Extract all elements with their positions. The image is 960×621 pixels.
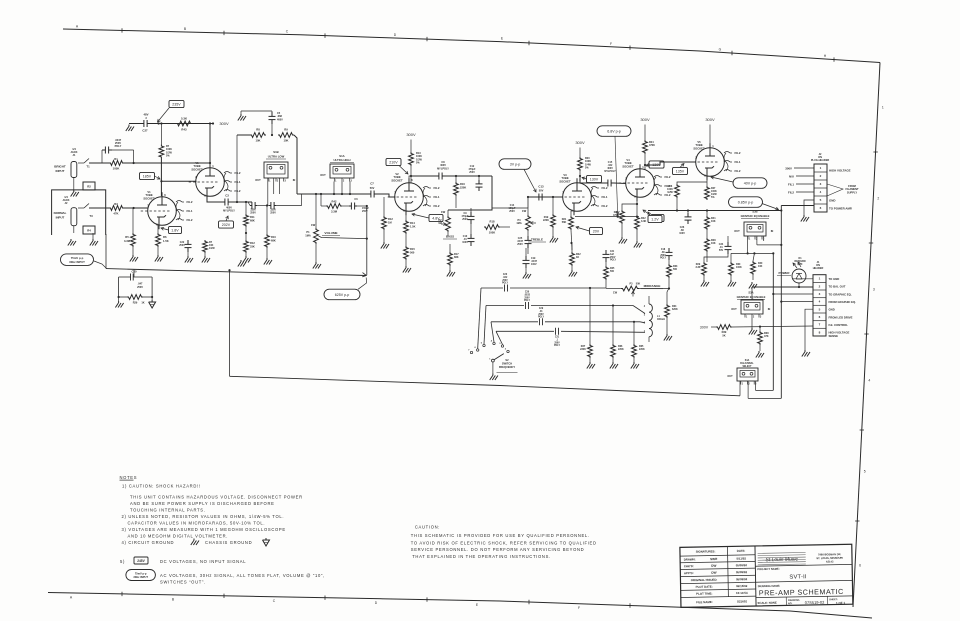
- capacitor C8 coupling: [436, 161, 449, 180]
- capacitor C5: [241, 111, 283, 136]
- ground on loop A 1: [0, 0, 1, 1]
- wire S4A mid pin to vertical B: [748, 397, 781, 399]
- svg-text:10K: 10K: [284, 139, 289, 143]
- resistor R29b: [695, 262, 706, 276]
- svg-text:THIS UNIT CONTAINS HAZARDOUS V: THIS UNIT CONTAINS HAZARDOUS VOLTAGE. DI…: [130, 495, 303, 500]
- svg-text:THAT EXPLAINED IN THE OPERATIN: THAT EXPLAINED IN THE OPERATING INSTRUCT…: [412, 554, 551, 559]
- svg-text:SOCKET: SOCKET: [391, 178, 403, 182]
- svg-text:SOCKET: SOCKET: [191, 167, 203, 171]
- ground R36: [610, 358, 618, 369]
- resistor R17 68K: [448, 244, 460, 266]
- svg-text:1K: 1K: [141, 302, 144, 305]
- svg-text:FIL1: FIL1: [434, 195, 440, 199]
- svg-text:250V: 250V: [538, 314, 544, 316]
- net labels J2 left: [785, 167, 794, 195]
- svg-text:1/2W: 1/2W: [667, 191, 673, 194]
- svg-text:4: 4: [820, 190, 822, 194]
- svg-text:48V: 48V: [144, 113, 149, 117]
- svg-text:MYLPOLY: MYLPOLY: [604, 170, 616, 173]
- svg-text:250V: 250V: [250, 212, 256, 215]
- capacitor C4 row: [248, 202, 257, 215]
- op-amp V3 triode: [556, 173, 592, 215]
- svg-text:470K: 470K: [649, 144, 655, 147]
- svg-text:MYLPOLY: MYLPOLY: [437, 167, 449, 170]
- svg-text:LED: LED: [798, 263, 803, 266]
- svg-text:30Hz INPUT: 30Hz INPUT: [69, 260, 85, 264]
- wire S1B pins down: [268, 178, 280, 206]
- svg-text:100V: 100V: [531, 263, 537, 266]
- svg-text:HEADER: HEADER: [813, 267, 824, 270]
- svg-text:250V: 250V: [469, 171, 475, 174]
- svg-text:300V: 300V: [640, 117, 650, 122]
- svg-text:3: 3: [873, 288, 875, 292]
- svg-text:TOUCHING INTERNAL PARTS.: TOUCHING INTERNAL PARTS.: [130, 508, 206, 513]
- capacitor C14 labels: [509, 204, 516, 213]
- svg-text:OUT: OUT: [734, 229, 740, 233]
- svg-text:INPUT: INPUT: [56, 215, 65, 219]
- voltage label 135V: [673, 164, 688, 175]
- svg-text:DATE:: DATE:: [737, 549, 746, 553]
- capacitor C7 series: [368, 182, 377, 198]
- wire loop vertical drop: [228, 269, 230, 376]
- svg-text:3: 3: [819, 292, 821, 296]
- svg-text:FIL2: FIL2: [434, 204, 440, 208]
- voltage node 300V above V3: [575, 140, 585, 157]
- wire eq bus line 2: [484, 306, 645, 345]
- oval 3V p-p: [499, 159, 536, 192]
- svg-text:St.Louis Music: St.Louis Music: [765, 557, 798, 564]
- svg-text:.1: .1: [556, 339, 559, 341]
- resistor R20 plate V3: [578, 157, 592, 171]
- svg-text:A: A: [70, 595, 73, 599]
- ground R19: [550, 228, 558, 243]
- wire 235V supply rail: [129, 122, 213, 124]
- svg-text:R10: R10: [271, 235, 276, 239]
- svg-text:300V: 300V: [406, 132, 416, 137]
- wire V5 cathode down: [706, 176, 708, 186]
- svg-text:B: B: [172, 597, 175, 601]
- svg-text:300V: 300V: [219, 121, 229, 126]
- svg-text:1.5K: 1.5K: [410, 224, 416, 228]
- svg-text:D: D: [394, 33, 397, 37]
- ground S3A: [749, 318, 757, 335]
- svg-text:1: 1: [742, 382, 744, 385]
- svg-text:S3B: S3B: [752, 210, 757, 214]
- svg-text:135V: 135V: [676, 169, 685, 173]
- svg-text:CW: CW: [522, 209, 527, 213]
- heater pins V3: [591, 186, 608, 208]
- voltage label 1.8V: [161, 226, 182, 233]
- svg-text:1: 1: [749, 237, 751, 240]
- svg-text:6: 6: [474, 347, 476, 349]
- svg-text:ST. LOUIS, MISSOURI: ST. LOUIS, MISSOURI: [816, 556, 843, 560]
- wire V1A plate to rail: [209, 122, 211, 164]
- svg-text:INPUT: INPUT: [56, 169, 65, 173]
- ground R6: [155, 247, 163, 262]
- svg-text:1: 1: [882, 106, 884, 110]
- svg-text:POLY: POLY: [610, 260, 617, 262]
- svg-text:1: 1: [642, 165, 644, 169]
- svg-text:TO POWER AMP.: TO POWER AMP.: [829, 207, 852, 211]
- voltage label 4.8V: [412, 213, 443, 221]
- wire into V3 grid: [527, 196, 563, 208]
- svg-text:5: 5: [820, 198, 822, 202]
- svg-text:56K: 56K: [562, 221, 567, 224]
- svg-text:FIL2: FIL2: [235, 171, 241, 175]
- svg-text:400mH: 400mH: [657, 318, 665, 321]
- svg-text:68K: 68K: [271, 238, 276, 242]
- svg-text:250V: 250V: [660, 255, 666, 257]
- resistor R27: [705, 186, 718, 200]
- svg-text:R42: R42: [332, 200, 337, 204]
- wire drop to R37: [589, 287, 591, 344]
- svg-text:PROJECT NAME:: PROJECT NAME:: [757, 567, 779, 571]
- notes text block: [120, 475, 303, 545]
- svg-text:R18: R18: [490, 220, 495, 224]
- resistor R23 470K: [613, 210, 624, 224]
- svg-text:220K: 220K: [460, 185, 466, 189]
- op-amp V5 triode: [689, 140, 725, 180]
- svg-text:R43: R43: [181, 128, 187, 132]
- resistor R39 5K: [716, 325, 732, 338]
- svg-text:.01: .01: [539, 311, 543, 313]
- svg-text:GRAPHIC EQ ENABLE: GRAPHIC EQ ENABLE: [741, 214, 770, 218]
- wire R9 down to bus: [294, 135, 305, 194]
- svg-text:FIL2: FIL2: [788, 191, 794, 195]
- svg-text:R12: R12: [250, 241, 255, 245]
- wire output bus: [648, 209, 782, 211]
- ground R17: [447, 266, 455, 277]
- svg-text:FIL2: FIL2: [187, 200, 193, 204]
- svg-text:202V: 202V: [222, 223, 231, 227]
- svg-text:OUT: OUT: [731, 307, 737, 311]
- svg-text:1: 1: [819, 277, 821, 281]
- svg-text:S21602: S21602: [737, 599, 747, 603]
- svg-text:1M: 1M: [438, 222, 441, 225]
- svg-text:R11: R11: [250, 215, 255, 219]
- resistor R10: [265, 206, 277, 249]
- title block: [680, 544, 853, 608]
- svg-text:05/09/92: 05/09/92: [736, 577, 748, 581]
- svg-text:1: 1: [820, 166, 822, 170]
- wire R16 down: [455, 196, 457, 208]
- svg-text:OUT: OUT: [255, 178, 261, 182]
- wire cathode bus V3 V4: [575, 216, 639, 218]
- ground P1: [313, 244, 321, 269]
- svg-text:THIS SCHEMATIC IS PROVIDED FOR: THIS SCHEMATIC IS PROVIDED FOR USE BY QU…: [411, 533, 590, 538]
- svg-text:GND: GND: [829, 199, 835, 203]
- ground R29b: [701, 276, 709, 287]
- wire R13 to V2 plate: [409, 166, 412, 184]
- svg-text:15:10:54: 15:10:54: [736, 591, 748, 595]
- svg-text:47K: 47K: [113, 212, 118, 216]
- connector J1: [813, 261, 826, 336]
- svg-text:R8: R8: [256, 128, 260, 132]
- svg-text:620K: 620K: [672, 308, 678, 311]
- rotary switch S2 contacts: [468, 339, 509, 362]
- switch S3A graphic eq enable: [731, 291, 770, 319]
- svg-text:FIL2: FIL2: [602, 186, 608, 190]
- resistor R6 1.5K: [156, 225, 169, 247]
- inductor L1 400mH: [644, 296, 665, 342]
- resistor R11 divider top: [244, 202, 256, 227]
- ground upper right of C5: [238, 111, 246, 121]
- ground below bright jack: [71, 178, 79, 197]
- svg-text:T3: T3: [89, 214, 93, 218]
- resistor R3 47K: [109, 202, 124, 216]
- wire S3B to R30: [730, 253, 732, 262]
- svg-text:SIGNATURES:: SIGNATURES:: [696, 549, 716, 553]
- svg-text:250V: 250V: [517, 243, 523, 246]
- resistor R40: [751, 261, 763, 275]
- svg-text:250V: 250V: [270, 212, 276, 215]
- svg-text:OUT: OUT: [320, 173, 326, 177]
- caution text block: [411, 525, 597, 560]
- svg-text:07S519-02: 07S519-02: [805, 600, 825, 605]
- wire J1 pin4: [780, 301, 813, 303]
- resistor R37 220K: [580, 344, 592, 358]
- svg-text:C29: C29: [539, 308, 544, 310]
- capacitor C9 slope: [462, 208, 475, 224]
- wire up to R8 row: [237, 135, 250, 202]
- wire R26 bottom: [676, 198, 678, 211]
- oval 0.85V p-p: [729, 197, 779, 210]
- wire R39 to J1: [732, 326, 813, 327]
- svg-text:185V: 185V: [143, 174, 152, 178]
- resistor R4 box: [83, 226, 95, 234]
- svg-text:1: 1: [269, 179, 271, 182]
- resistor R42 3.3M: [321, 194, 349, 214]
- wire treble top to signal: [492, 208, 528, 227]
- svg-text:D: D: [375, 601, 378, 605]
- wire C3 to divider: [231, 201, 252, 203]
- svg-text:P3: P3: [630, 283, 634, 286]
- capacitor C20 block: [119, 269, 153, 297]
- capacitor C31 series: [554, 328, 561, 347]
- wire main bus: [305, 193, 368, 195]
- svg-text:235V: 235V: [172, 102, 181, 106]
- svg-text:FREQUENCY: FREQUENCY: [499, 365, 516, 369]
- svg-text:1: 1: [746, 315, 748, 318]
- resistor R18 100K: [471, 220, 500, 235]
- svg-text:C27: C27: [142, 129, 148, 133]
- capacitor C1 bypass loop: [102, 138, 134, 163]
- resistor R33 560: [667, 260, 678, 288]
- svg-text:250V: 250V: [610, 257, 616, 259]
- resistor R24 470K: [643, 140, 656, 154]
- svg-text:C21: C21: [610, 251, 615, 253]
- svg-text:10K: 10K: [711, 242, 716, 245]
- svg-text:S3A: S3A: [748, 291, 753, 295]
- svg-text:S2: S2: [505, 358, 509, 362]
- svg-text:CHASSIS GROUND: CHASSIS GROUND: [205, 540, 252, 545]
- svg-text:245V: 245V: [137, 559, 145, 563]
- capacitor C18: [660, 248, 673, 260]
- svg-text:POLY: POLY: [554, 345, 561, 347]
- svg-text:VOLUME: VOLUME: [324, 231, 337, 235]
- svg-text:N/U: N/U: [789, 175, 794, 179]
- svg-text:POLY: POLY: [538, 317, 545, 319]
- voltage label 185V: [140, 172, 161, 179]
- top border zone ticks and letters: [76, 24, 834, 62]
- capacitor C12: [469, 165, 483, 191]
- svg-text:5%: 5%: [711, 196, 715, 199]
- svg-text:SOCKET: SOCKET: [559, 179, 571, 183]
- svg-text:GND: GND: [829, 308, 835, 312]
- heater pins V4: [654, 175, 671, 197]
- svg-text:R9: R9: [284, 128, 288, 132]
- svg-text:50V: 50V: [370, 186, 375, 190]
- wire J1 pin2 bus: [752, 286, 813, 300]
- heater pins V1A: [224, 171, 241, 193]
- svg-text:.0033: .0033: [524, 294, 530, 296]
- bottom border zone ticks and letters: [70, 592, 630, 611]
- jack J1 bright input: [54, 147, 77, 178]
- note 5 ac voltages oval: [126, 570, 325, 585]
- wire loop A left vertical: [105, 234, 107, 269]
- wire eq bus line 3: [491, 322, 645, 342]
- resistor R43 5.6K: [176, 117, 192, 132]
- svg-text:DW: DW: [711, 571, 716, 575]
- voltage label 12V: [643, 210, 664, 222]
- wire drop to R35: [633, 321, 635, 344]
- potentiometer P1 volume: [305, 193, 368, 244]
- svg-text:IN: IN: [293, 178, 296, 182]
- svg-text:PLOT TIME:: PLOT TIME:: [696, 591, 712, 595]
- svg-text:FIL2: FIL2: [735, 169, 741, 173]
- ground J1 pin5: [802, 309, 813, 356]
- ground S2: [490, 362, 498, 380]
- op-amp V2 triode: [388, 172, 424, 215]
- svg-text:1uF: 1uF: [610, 254, 615, 256]
- connector J2: [811, 153, 830, 212]
- svg-text:POLY: POLY: [115, 144, 122, 148]
- wire C7 to V2 grid: [377, 194, 396, 197]
- ground divider: [243, 253, 251, 263]
- svg-text:10K: 10K: [711, 220, 716, 223]
- wire V1B plate to V1A grid: [160, 159, 196, 197]
- svg-text:4) CIRCUIT GROUND: 4) CIRCUIT GROUND: [122, 540, 175, 545]
- capacitor C22: [179, 240, 191, 256]
- voltage node 300V above V2: [406, 132, 416, 152]
- svg-text:.047: .047: [138, 283, 143, 286]
- svg-text:R1: R1: [114, 157, 118, 161]
- svg-text:5/11/92: 5/11/92: [736, 556, 746, 560]
- svg-text:CAUTION:: CAUTION:: [415, 525, 440, 530]
- chassis ground glyph in note 4: [263, 538, 270, 546]
- oval 625V p-p: [324, 278, 367, 300]
- svg-text:300V: 300V: [700, 326, 709, 330]
- svg-text:3.3M: 3.3M: [331, 210, 338, 214]
- svg-text:CW: CW: [311, 223, 316, 227]
- resistor R9 10K: [278, 128, 294, 143]
- resistor R14 cathode: [404, 215, 416, 234]
- svg-text:6: 6: [164, 193, 166, 197]
- title block name fields: [757, 566, 846, 607]
- op-amp V1A triode: [189, 161, 225, 200]
- ground R5: [130, 247, 138, 262]
- svg-text:5): 5): [120, 559, 125, 564]
- resistor R22b 1K: [570, 244, 582, 266]
- svg-text:IN: IN: [768, 307, 771, 311]
- svg-text:100K: 100K: [736, 266, 742, 269]
- svg-text:PLOT DATE:: PLOT DATE:: [696, 585, 713, 589]
- svg-text:TREBLE: TREBLE: [531, 238, 543, 242]
- svg-text:2: 2: [748, 382, 750, 385]
- svg-text:7: 7: [468, 349, 470, 351]
- svg-text:E: E: [501, 37, 504, 41]
- svg-text:PLUG-HEADER: PLUG-HEADER: [811, 159, 830, 162]
- svg-text:CW: CW: [613, 292, 618, 295]
- voltage label 235V: [158, 100, 185, 122]
- heater pins V1B: [176, 200, 193, 222]
- capacitor C3 coupling: [222, 194, 235, 213]
- svg-text:SWITCH: SWITCH: [502, 362, 512, 366]
- capacitor C21: [603, 250, 617, 262]
- wires S4A pins to loop: [740, 381, 756, 398]
- svg-text:FIL1: FIL1: [735, 160, 741, 164]
- svg-text:.68: .68: [661, 252, 665, 254]
- switch S4A balanced out: [727, 359, 758, 385]
- svg-text:C6: C6: [354, 198, 358, 201]
- resistor R15: [404, 234, 416, 260]
- svg-text:100V: 100V: [462, 241, 468, 244]
- resistor R22 3.3K: [635, 216, 647, 230]
- wire eq bus line 1: [478, 288, 606, 349]
- svg-text:POLY: POLY: [524, 300, 531, 302]
- svg-text:33K: 33K: [250, 244, 255, 248]
- capacitor C19: [523, 248, 538, 268]
- svg-text:C18: C18: [661, 249, 666, 251]
- svg-text:PRE-AMP SCHEMATIC: PRE-AMP SCHEMATIC: [759, 587, 844, 598]
- svg-text:BAL/UNBAL: BAL/UNBAL: [740, 362, 754, 365]
- svg-text:TO BAL OUT: TO BAL OUT: [829, 285, 846, 289]
- resistor R34 620K: [665, 288, 678, 318]
- resistor R12b divider bottom: [244, 227, 256, 253]
- svg-text:NOTES: NOTES: [120, 475, 138, 480]
- svg-text:10K: 10K: [758, 265, 763, 268]
- oval 40V p-p: [711, 176, 767, 188]
- wire C15 to V4 grid: [614, 182, 626, 185]
- svg-text:R15: R15: [410, 247, 415, 251]
- svg-text:C30: C30: [525, 292, 530, 294]
- resistor R13 plate V2: [409, 152, 423, 166]
- svg-text:68K: 68K: [454, 256, 459, 259]
- sheet right border line: [853, 63, 880, 608]
- svg-text:300V: 300V: [575, 140, 585, 145]
- svg-text:TO GND: TO GND: [829, 277, 840, 281]
- heater pins V2: [423, 186, 440, 208]
- svg-text:F.E. CONTROL: F.E. CONTROL: [829, 323, 849, 327]
- svg-text:.022: .022: [503, 277, 508, 279]
- svg-text:FIL2: FIL2: [735, 151, 741, 155]
- svg-text:SELECT: SELECT: [742, 366, 752, 368]
- svg-text:C3: C3: [225, 194, 229, 198]
- svg-text:F: F: [578, 606, 580, 610]
- oval 6.8V p-p: [597, 126, 631, 216]
- svg-text:2) UNLESS NOTED, RESISTOR VALU: 2) UNLESS NOTED, RESISTOR VALUES IN OHMS…: [122, 514, 285, 519]
- voltage label 130V V3: [582, 175, 602, 182]
- svg-text:APP'D:: APP'D:: [684, 571, 694, 575]
- svg-text:MYLPOLY: MYLPOLY: [223, 210, 235, 213]
- node 300V at rail right: [212, 121, 229, 126]
- svg-text:1K: 1K: [576, 256, 579, 259]
- svg-text:100V: 100V: [679, 232, 685, 235]
- svg-text:HIGH VOLTAGE: HIGH VOLTAGE: [829, 169, 851, 173]
- svg-text:05/09/92: 05/09/92: [736, 563, 748, 567]
- svg-text:3: 3: [285, 179, 287, 182]
- capacitor C34: [704, 236, 732, 262]
